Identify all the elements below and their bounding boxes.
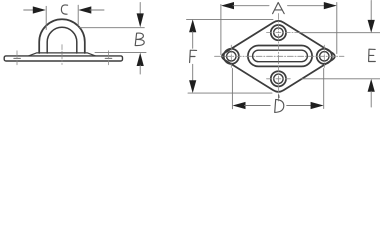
dimension A line right segment with arrowhead (288, 5, 325, 7)
side view: base plate (4, 56, 122, 61)
top view: right hole outer circle (317, 49, 332, 64)
dimension D line right segment with arrowhead (287, 105, 312, 107)
dimension F top extension line (187, 18, 274, 20)
dimension E top extension line (top hole center level) (300, 32, 380, 34)
top view: left hole outer circle (224, 49, 239, 64)
top view: vertical centerline (277, 14, 279, 102)
top view: horizontal centerline (215, 55, 345, 57)
side view: left hole centerline (16, 51, 18, 65)
dimension B top extension line (inner arch top level) (80, 27, 145, 29)
dimension D left extension line (231, 69, 233, 109)
top view: top hole horizontal centerline (267, 32, 301, 34)
dimension B bottom extension line (plate top level) (95, 52, 146, 54)
top view: left hole inner circle (227, 52, 236, 61)
side view: right hole hidden lines (105, 57, 112, 59)
dimension F label (190, 50, 197, 62)
dimension B label (135, 33, 144, 45)
dimension D line left segment with arrowhead (233, 102, 246, 109)
side view: eye loop outer arch (39, 19, 85, 53)
side view: left hole hidden lines (14, 57, 21, 59)
dimension C right extension line (77, 5, 79, 25)
dimension D label (275, 95, 284, 112)
dimension C line left segment (24, 9, 35, 11)
side view: middle centerline (61, 45, 63, 65)
dimension E bottom arrow (368, 79, 375, 92)
side view: eye loop inner arch (47, 27, 77, 53)
side view: right hole centerline (108, 51, 110, 65)
dimension C left extension line (45, 6, 47, 29)
dimension C line right segment (90, 9, 104, 11)
top view: top hole inner circle (274, 28, 283, 37)
dimension C right arrowhead (78, 6, 91, 13)
dimension A left extension line (220, 4, 222, 54)
top view: center slot outer obround (248, 46, 312, 67)
dimension E bottom extension line (bottom hole center level) (302, 78, 380, 80)
dimension F bottom extension line (188, 92, 272, 94)
dimension B bottom arrow (137, 53, 144, 66)
top view: center slot inner obround (253, 50, 308, 62)
dimension A line left segment with arrowhead (221, 2, 234, 9)
top view: right hole vertical centerline (323, 45, 325, 67)
dimension D right extension line (323, 69, 325, 109)
top view: bottom hole outer circle (271, 71, 286, 86)
dimension A label (273, 3, 285, 14)
dimension E top arrow (370, 1, 372, 22)
top view: top hole outer circle (271, 25, 286, 40)
dimension E label (369, 49, 376, 61)
dimension F vertical line with arrowheads (189, 19, 196, 32)
side view: base fillet mound (29, 53, 96, 56)
dimension B top arrow (139, 3, 141, 15)
dimension A right extension line (336, 3, 338, 54)
dimension C label (61, 5, 67, 14)
top view: bottom hole inner circle (274, 74, 283, 83)
dimension C left arrowhead (33, 6, 46, 13)
top view: right hole inner circle (320, 52, 329, 61)
top view: bottom hole horizontal centerline (267, 78, 292, 80)
top view: diamond plate outline (222, 21, 335, 92)
top view: left hole vertical centerline (230, 45, 232, 67)
